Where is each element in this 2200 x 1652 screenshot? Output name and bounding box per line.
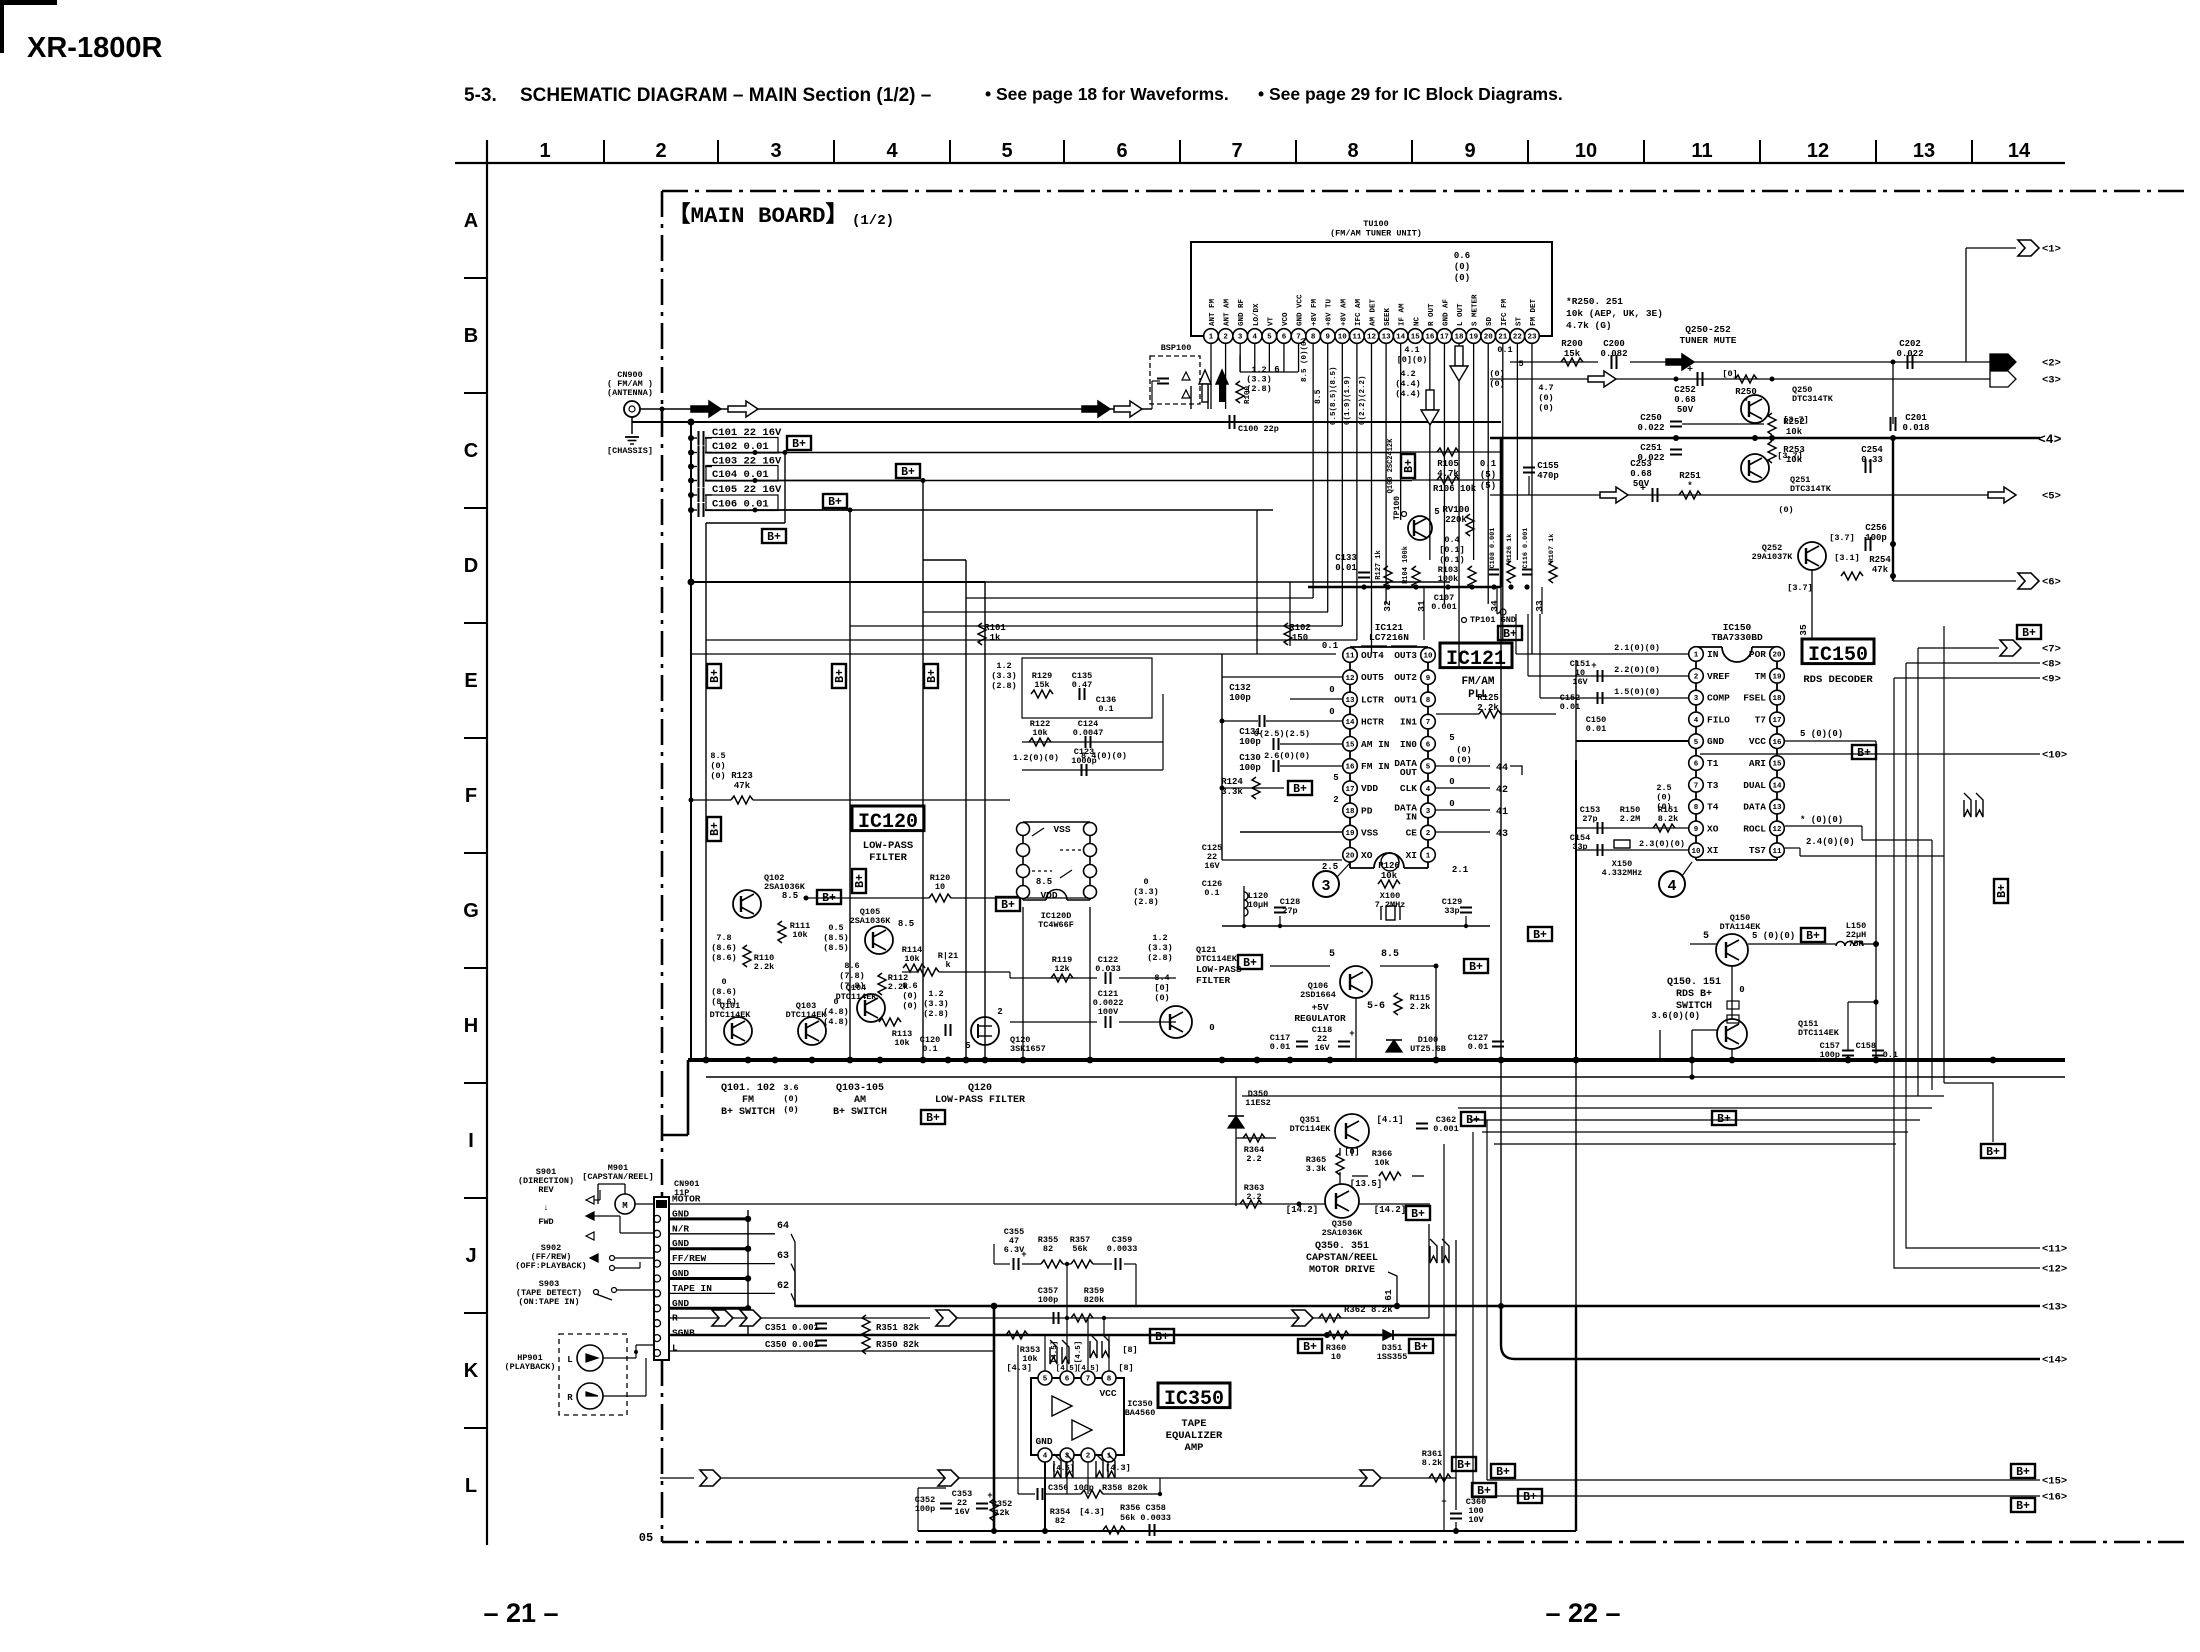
wire heavy vertical 994 <box>993 1305 996 1531</box>
wire conn15 riser <box>1486 1120 1488 1480</box>
svg-text:(0): (0) <box>1489 369 1504 379</box>
wire conn16 riser <box>1472 1132 1474 1496</box>
wire C104 net <box>705 480 923 482</box>
IC120D pin circle right 0 <box>1084 823 1097 836</box>
svg-text:64: 64 <box>777 1221 789 1232</box>
svg-text:R254: R254 <box>1869 555 1891 565</box>
bandpass filter BSP100 <box>1150 356 1200 404</box>
svg-text:(3.3): (3.3) <box>1133 887 1159 897</box>
resistor R250 <box>1735 375 1757 383</box>
svg-text:IFC FM: IFC FM <box>1501 298 1509 326</box>
svg-text:Q350. 351: Q350. 351 <box>1315 1241 1369 1252</box>
svg-text:470p: 470p <box>1537 471 1559 481</box>
wire conn12 corner <box>1894 678 2040 1268</box>
IC350 pin 2 <box>1081 1448 1095 1462</box>
svg-text:2: 2 <box>1223 334 1228 342</box>
resistor R251 <box>1679 491 1701 499</box>
svg-text:C106 0.01: C106 0.01 <box>712 499 769 511</box>
svg-text:11: 11 <box>1772 848 1782 856</box>
svg-text:VCO: VCO <box>1282 312 1290 326</box>
open arrow tape mid <box>712 1310 733 1326</box>
tuner pin 14 IF AM <box>1393 329 1408 344</box>
svg-text:R104 100k: R104 100k <box>1402 546 1410 584</box>
B+ box row F <box>707 817 722 841</box>
svg-text:2: 2 <box>1086 1453 1091 1461</box>
wire pin3-7 top rail <box>1240 371 1298 373</box>
IC150 pin 8 T4 <box>1689 799 1704 814</box>
svg-text:FILO: FILO <box>1707 714 1730 725</box>
wire tuner pin 5 drop <box>1268 343 1270 372</box>
svg-text:<7>: <7> <box>2042 644 2061 656</box>
svg-text:0.033: 0.033 <box>1095 964 1121 974</box>
wire q252 down pin35 <box>1811 570 1813 640</box>
svg-text:FM/AM: FM/AM <box>1461 676 1494 688</box>
chassis ground <box>631 417 633 434</box>
svg-text:10: 10 <box>1691 848 1701 856</box>
svg-text:A: A <box>464 210 478 232</box>
svg-text:47k: 47k <box>734 781 751 791</box>
wire tuner pin 14 drop <box>1400 343 1402 520</box>
svg-text:R101: R101 <box>984 623 1006 633</box>
svg-text:+8V AM: +8V AM <box>1340 298 1348 326</box>
svg-text:(ANTENNA): (ANTENNA) <box>607 388 653 398</box>
svg-text:2: 2 <box>997 1007 1002 1017</box>
svg-text:CLK: CLK <box>1400 783 1417 794</box>
svg-text:SD: SD <box>1486 316 1494 326</box>
svg-text:5: 5 <box>1703 931 1709 942</box>
B+ box near C102 <box>787 436 811 450</box>
svg-text:16: 16 <box>1345 764 1355 772</box>
svg-text:5 (0)(0): 5 (0)(0) <box>1800 729 1843 739</box>
B+ box conn15 left <box>1491 1464 1515 1478</box>
IC150 pin 20 POR <box>1770 647 1785 662</box>
svg-text:XO: XO <box>1361 850 1373 861</box>
svg-text:2.1: 2.1 <box>1452 865 1469 875</box>
svg-text:C130: C130 <box>1239 753 1261 763</box>
svg-text:GND VCC: GND VCC <box>1297 294 1305 326</box>
svg-text:R127 1k: R127 1k <box>1375 550 1383 579</box>
IC120 label box <box>852 806 924 831</box>
svg-text:B+: B+ <box>2016 1466 2030 1479</box>
grid left ruler <box>486 140 488 1545</box>
wire bundle row D 5 <box>691 653 1336 655</box>
svg-text:5: 5 <box>1043 1376 1048 1384</box>
IC150 pin 4 FILO <box>1689 712 1704 727</box>
circled 4 <box>1659 871 1685 897</box>
capacitor C101 <box>688 435 694 441</box>
wire left leg down <box>687 1060 690 1135</box>
svg-text:IC121: IC121 <box>1446 648 1506 671</box>
wire bundle row D 4 <box>706 639 1357 641</box>
wire FF/REW to 63 <box>669 1263 775 1265</box>
svg-text:4: 4 <box>1043 1453 1048 1461</box>
svg-text:18: 18 <box>1345 808 1355 816</box>
svg-text:100p: 100p <box>1865 533 1887 543</box>
svg-text:0.1: 0.1 <box>1098 704 1113 714</box>
wire LCTR stub <box>1290 698 1342 700</box>
wire L line <box>669 1350 994 1352</box>
tuner pin 12 AM DET <box>1364 329 1379 344</box>
wire R line <box>669 1317 930 1319</box>
svg-text:8: 8 <box>1311 334 1316 342</box>
svg-text:2.2M: 2.2M <box>1620 814 1640 824</box>
wire C106 long right <box>755 509 1273 511</box>
svg-text:TP101 GND: TP101 GND <box>1470 615 1516 625</box>
svg-text:1000p: 1000p <box>1071 756 1097 766</box>
svg-text:VSS: VSS <box>1361 828 1378 839</box>
signal arrow open 2 <box>1114 401 1142 417</box>
svg-text:S METER: S METER <box>1472 294 1480 326</box>
wire R row up leg <box>1428 1224 1430 1318</box>
svg-text:19: 19 <box>1469 334 1479 342</box>
svg-text:BSP100: BSP100 <box>1161 343 1192 353</box>
wire VSS rail <box>1240 831 1342 833</box>
svg-text:(0.1): (0.1) <box>1439 555 1465 565</box>
chevron R362 <box>1292 1310 1313 1326</box>
svg-text:• See page 18 for Waveforms.: • See page 18 for Waveforms. <box>985 84 1229 104</box>
wire conn14 heavy <box>1501 1306 2040 1359</box>
svg-text:(0): (0) <box>1454 262 1470 272</box>
wire bundle row D 1 <box>966 597 1313 599</box>
svg-text:0.082: 0.082 <box>1600 349 1627 359</box>
wire OUT5 stub <box>1222 676 1342 678</box>
svg-text:31: 31 <box>1416 600 1427 612</box>
B+ box row G vertical <box>852 869 867 893</box>
svg-text:4: 4 <box>1426 786 1431 794</box>
svg-text:VCC: VCC <box>1749 736 1766 747</box>
wire tuner pin 22 drop <box>1516 343 1518 560</box>
svg-text:OUT3: OUT3 <box>1394 650 1417 661</box>
svg-text:8: 8 <box>1107 1376 1112 1384</box>
overline OUT4 <box>1361 645 1387 647</box>
svg-text:0.1: 0.1 <box>1322 641 1339 651</box>
svg-text:ARI: ARI <box>1749 758 1766 769</box>
svg-text:4.1: 4.1 <box>1404 345 1419 355</box>
svg-text:* (0)(0): * (0)(0) <box>1800 815 1843 825</box>
svg-text:B+ SWITCH: B+ SWITCH <box>833 1107 887 1118</box>
svg-text:11ES2: 11ES2 <box>1245 1098 1271 1108</box>
B+ box below captions <box>921 1110 945 1124</box>
wire TAPE IN to 62 <box>669 1292 775 1294</box>
svg-text:5 (0)(0): 5 (0)(0) <box>1752 931 1795 941</box>
capacitor C103 <box>688 464 694 470</box>
svg-text:[0]: [0] <box>1154 983 1169 993</box>
IC121 pin 10 OUT3 <box>1421 648 1436 663</box>
IC350 pin 3 <box>1060 1448 1074 1462</box>
IC350 pin 6 <box>1060 1371 1074 1385</box>
svg-text:TBA7330BD: TBA7330BD <box>1711 632 1763 643</box>
svg-text:VDD: VDD <box>1361 783 1378 794</box>
diode D100 UT25.6B <box>1386 1040 1402 1052</box>
svg-text:3SK1657: 3SK1657 <box>1010 1044 1046 1054</box>
svg-text:2.1(0)(0): 2.1(0)(0) <box>1614 643 1660 653</box>
wire N/R to 64 <box>669 1233 775 1235</box>
svg-text:16V: 16V <box>1204 861 1220 871</box>
svg-text:6: 6 <box>1426 741 1431 749</box>
svg-text:27p: 27p <box>1582 814 1597 824</box>
IC350 pin 5 <box>1038 1371 1052 1385</box>
svg-text:61: 61 <box>1383 1289 1394 1301</box>
wire row D right <box>985 581 1450 583</box>
svg-text:(5): (5) <box>1480 481 1496 491</box>
svg-text:(0): (0) <box>1489 379 1504 389</box>
svg-text:05: 05 <box>639 1531 653 1545</box>
arrow up solid pin2 <box>1216 370 1228 384</box>
wire gnd collector vertical <box>747 1210 749 1335</box>
svg-text:B+: B+ <box>901 466 915 479</box>
IC150 pin 2 VREF <box>1689 669 1704 684</box>
svg-text:IN0: IN0 <box>1400 739 1417 750</box>
svg-text:GND: GND <box>1035 1436 1052 1447</box>
svg-text:0.0033: 0.0033 <box>1107 1244 1138 1254</box>
svg-text:R126 1k: R126 1k <box>1506 534 1514 563</box>
CN901 pin TAPE IN <box>654 1290 661 1297</box>
B+ box D351 left <box>1298 1339 1322 1353</box>
CN901 pin GND <box>654 1305 661 1312</box>
svg-text:0.001: 0.001 <box>1431 602 1457 612</box>
svg-text:B+: B+ <box>1996 884 2009 898</box>
svg-text:100p: 100p <box>1820 1050 1840 1060</box>
svg-text:5: 5 <box>965 1041 970 1051</box>
svg-text:R105: R105 <box>1437 459 1459 469</box>
tuner pin 1 ANT FM <box>1204 329 1219 344</box>
wire tuner pin 12 drop <box>1370 343 1372 654</box>
svg-text:TM: TM <box>1755 671 1767 682</box>
svg-text:8.6: 8.6 <box>844 961 859 971</box>
IC350 pin 8 <box>1102 1371 1116 1385</box>
main board border bottom <box>662 1541 2190 1544</box>
B+ box row E 1 <box>707 664 722 688</box>
svg-text:XO: XO <box>1707 823 1719 834</box>
IC120D pin circle right 3 <box>1084 886 1097 899</box>
svg-text:+: + <box>1640 484 1646 495</box>
IC121 pin 12 OUT5 <box>1343 670 1358 685</box>
svg-text:VREF: VREF <box>1707 671 1730 682</box>
IC120D pin circle left 2 <box>1017 865 1030 878</box>
svg-text:9: 9 <box>1464 140 1475 162</box>
IC150 pin 13 DATA <box>1770 799 1785 814</box>
heavy bus row H <box>688 1058 2065 1062</box>
svg-text:1k: 1k <box>990 633 1001 643</box>
CN901 pin MOTOR <box>656 1200 667 1208</box>
svg-text:B+: B+ <box>1806 930 1820 943</box>
wire tuner pin 20 drop <box>1487 343 1489 604</box>
svg-text:R251: R251 <box>1679 471 1701 481</box>
transistor Q104 DTC114EK <box>857 994 885 1022</box>
svg-text:2: 2 <box>1333 795 1338 805</box>
svg-text:3.6: 3.6 <box>783 1083 798 1093</box>
svg-text:B+ SWITCH: B+ SWITCH <box>721 1107 775 1118</box>
svg-text:(0): (0) <box>1456 745 1471 755</box>
wire row G rail <box>806 897 929 899</box>
B+ box Q150 row <box>1801 928 1825 942</box>
svg-text:5: 5 <box>1267 334 1272 342</box>
wire 61 vertical <box>1388 1272 1397 1305</box>
svg-text:[14.2]: [14.2] <box>1374 1205 1406 1215</box>
svg-text:SGNB: SGNB <box>672 1328 695 1339</box>
tuner pin 10 +8V AM <box>1335 329 1350 344</box>
svg-text:13: 13 <box>1345 697 1355 705</box>
svg-text:1.2(0)(0): 1.2(0)(0) <box>1013 753 1059 763</box>
svg-text:18: 18 <box>1772 695 1782 703</box>
svg-text:k: k <box>945 960 950 970</box>
svg-text:CAPSTAN/REEL: CAPSTAN/REEL <box>1306 1252 1378 1264</box>
svg-text:<4>: <4> <box>2038 432 2062 447</box>
svg-text:3.6(0)(0): 3.6(0)(0) <box>1651 1011 1700 1021</box>
B+ rotated right bus <box>1994 879 2009 903</box>
wire IC121 left vertical <box>1221 654 1223 860</box>
signal arrow solid <box>691 401 721 417</box>
wire pins 31-34 drops <box>1423 587 1425 640</box>
IC150 pin 17 T7 <box>1770 712 1785 727</box>
wire to conn1 vertical <box>1965 248 1967 362</box>
svg-text:(0): (0) <box>1538 403 1553 413</box>
svg-text:OUT1: OUT1 <box>1394 694 1417 705</box>
svg-text:10k: 10k <box>1374 1158 1389 1168</box>
svg-text:6: 6 <box>1065 1376 1070 1384</box>
svg-text:100p: 100p <box>1229 693 1251 703</box>
svg-text:TU100: TU100 <box>1363 219 1389 229</box>
svg-text:34: 34 <box>1489 600 1500 612</box>
svg-text:HCTR: HCTR <box>1361 717 1384 728</box>
svg-text:4.332MHz: 4.332MHz <box>1602 868 1643 878</box>
svg-text:0: 0 <box>1329 707 1334 717</box>
svg-text:0(1.9)(1.9): 0(1.9)(1.9) <box>1344 375 1352 425</box>
svg-text:L: L <box>465 1475 477 1497</box>
svg-text:2SD1664: 2SD1664 <box>1300 990 1336 1000</box>
svg-text:DATA: DATA <box>1743 802 1766 813</box>
svg-text:C251: C251 <box>1640 443 1662 453</box>
svg-text:<12>: <12> <box>2042 1264 2067 1276</box>
svg-text:(2.8): (2.8) <box>991 681 1017 691</box>
svg-text:8: 8 <box>1694 804 1699 812</box>
svg-text:LC7216N: LC7216N <box>1369 632 1409 643</box>
svg-text:0.01: 0.01 <box>1468 1042 1488 1052</box>
IC150 pin 9 XO <box>1689 821 1704 836</box>
svg-text:8.2k: 8.2k <box>1422 1458 1442 1468</box>
svg-text:B+: B+ <box>709 822 722 836</box>
svg-text:<11>: <11> <box>2042 1244 2067 1256</box>
IC150 label box <box>1802 639 1874 664</box>
svg-text:M: M <box>622 1201 627 1211</box>
B+ box regulator right <box>1464 959 1488 973</box>
svg-text:B+: B+ <box>1477 1485 1491 1498</box>
svg-text:(0): (0) <box>902 1001 917 1011</box>
svg-text:(3.3): (3.3) <box>1246 375 1272 385</box>
capacitor C106 <box>688 507 694 513</box>
svg-text:R252: R252 <box>1783 417 1805 427</box>
svg-text:REGULATOR: REGULATOR <box>1294 1013 1346 1024</box>
svg-text:FF/REW: FF/REW <box>672 1253 707 1264</box>
svg-text:33p: 33p <box>1444 906 1459 916</box>
solid small arrow conn2 <box>1990 354 2016 370</box>
svg-text:[4.5]: [4.5] <box>1075 1341 1083 1364</box>
svg-text:DTC314TK: DTC314TK <box>1790 484 1832 494</box>
IC350 opamp A <box>1052 1396 1072 1416</box>
svg-text:XI: XI <box>1406 850 1417 861</box>
svg-text:20: 20 <box>1772 652 1782 660</box>
svg-text:(4.8): (4.8) <box>823 1017 849 1027</box>
svg-text:43: 43 <box>1496 829 1508 840</box>
svg-text:2.3(0)(0): 2.3(0)(0) <box>1639 839 1685 849</box>
svg-text:FWD: FWD <box>538 1217 553 1227</box>
IC120D switch body <box>1022 822 1024 900</box>
svg-text:C201: C201 <box>1905 413 1927 423</box>
svg-text:B+: B+ <box>1293 783 1307 796</box>
svg-text:<15>: <15> <box>2042 1476 2067 1488</box>
svg-text:LCTR: LCTR <box>1361 694 1384 705</box>
svg-text:B+: B+ <box>1155 1331 1169 1344</box>
tuner pin 23 FM DET <box>1525 329 1540 344</box>
svg-text:22: 22 <box>1513 334 1523 342</box>
svg-text:UT25.6B: UT25.6B <box>1410 1044 1446 1054</box>
svg-text:4.2: 4.2 <box>1400 369 1415 379</box>
svg-text:(ON:TAPE IN): (ON:TAPE IN) <box>518 1297 579 1307</box>
wire mute vertical <box>1892 438 1894 576</box>
CN901 pin FF/REW <box>654 1260 661 1267</box>
svg-text:16V: 16V <box>954 1507 970 1517</box>
svg-text:82: 82 <box>1055 1516 1065 1526</box>
svg-text:XR-1800R: XR-1800R <box>27 32 162 64</box>
transistor Q100 2SC2412K <box>1408 516 1432 540</box>
svg-text:IF AM: IF AM <box>1399 303 1407 326</box>
IC150 pin 10 XI <box>1689 843 1704 858</box>
tuner pin 11 IFC AM <box>1350 329 1365 344</box>
wire bundle row H-I <box>706 1076 2065 1078</box>
svg-text:1.2: 1.2 <box>996 661 1011 671</box>
wire bus row C <box>632 421 1501 423</box>
svg-text:B+: B+ <box>2016 1500 2030 1513</box>
svg-text:DTC114EK: DTC114EK <box>1196 954 1238 964</box>
svg-text:[3.7]: [3.7] <box>1777 451 1803 461</box>
svg-text:B+: B+ <box>1414 1341 1428 1354</box>
svg-text:RDS DECODER: RDS DECODER <box>1803 674 1873 686</box>
wire conn7-9 <box>1918 647 1999 649</box>
switch S902 contact <box>590 1254 598 1262</box>
open small arrow conn3 <box>1990 371 2016 387</box>
svg-text:B+: B+ <box>834 669 847 683</box>
wire antenna to pins <box>1190 386 1192 409</box>
svg-text:FM DET: FM DET <box>1530 298 1538 326</box>
svg-text:(8.5): (8.5) <box>823 943 849 953</box>
IC121 pin 20 XO <box>1343 848 1358 863</box>
svg-text:Q101. 102: Q101. 102 <box>721 1083 775 1094</box>
crystal X100 7.2MHz <box>1222 859 1342 861</box>
svg-text:0.68: 0.68 <box>1674 395 1696 405</box>
svg-text:<13>: <13> <box>2042 1302 2067 1314</box>
wire row B to conn2 <box>1510 361 1598 363</box>
wire motor-drive heavy row to conn13 <box>795 1305 2040 1308</box>
switch S901 contacts <box>586 1196 594 1204</box>
wire tuner pin 3 drop <box>1239 343 1241 372</box>
svg-text:16V: 16V <box>1572 677 1588 687</box>
svg-text:[4.5]: [4.5] <box>1056 1365 1079 1373</box>
headphone HP901 dashed box <box>559 1334 627 1415</box>
wire verticals mid right <box>1500 1060 1502 1307</box>
svg-text:0.4: 0.4 <box>1444 535 1459 545</box>
svg-text:I: I <box>468 1130 474 1152</box>
IC121 pin 5 DATA OUT <box>1421 759 1436 774</box>
svg-text:Q150. 151: Q150. 151 <box>1667 977 1721 988</box>
svg-text:0: 0 <box>833 997 838 1007</box>
capacitor C201 0.018 <box>1890 417 1892 431</box>
chevron arrow conn1 <box>2018 240 2039 256</box>
svg-text:R123: R123 <box>731 771 753 781</box>
svg-text:R124: R124 <box>1221 777 1243 787</box>
IC350 pin 1 <box>1102 1448 1116 1462</box>
svg-text:7: 7 <box>1231 140 1242 162</box>
tuner pin 16 R OUT <box>1423 329 1438 344</box>
